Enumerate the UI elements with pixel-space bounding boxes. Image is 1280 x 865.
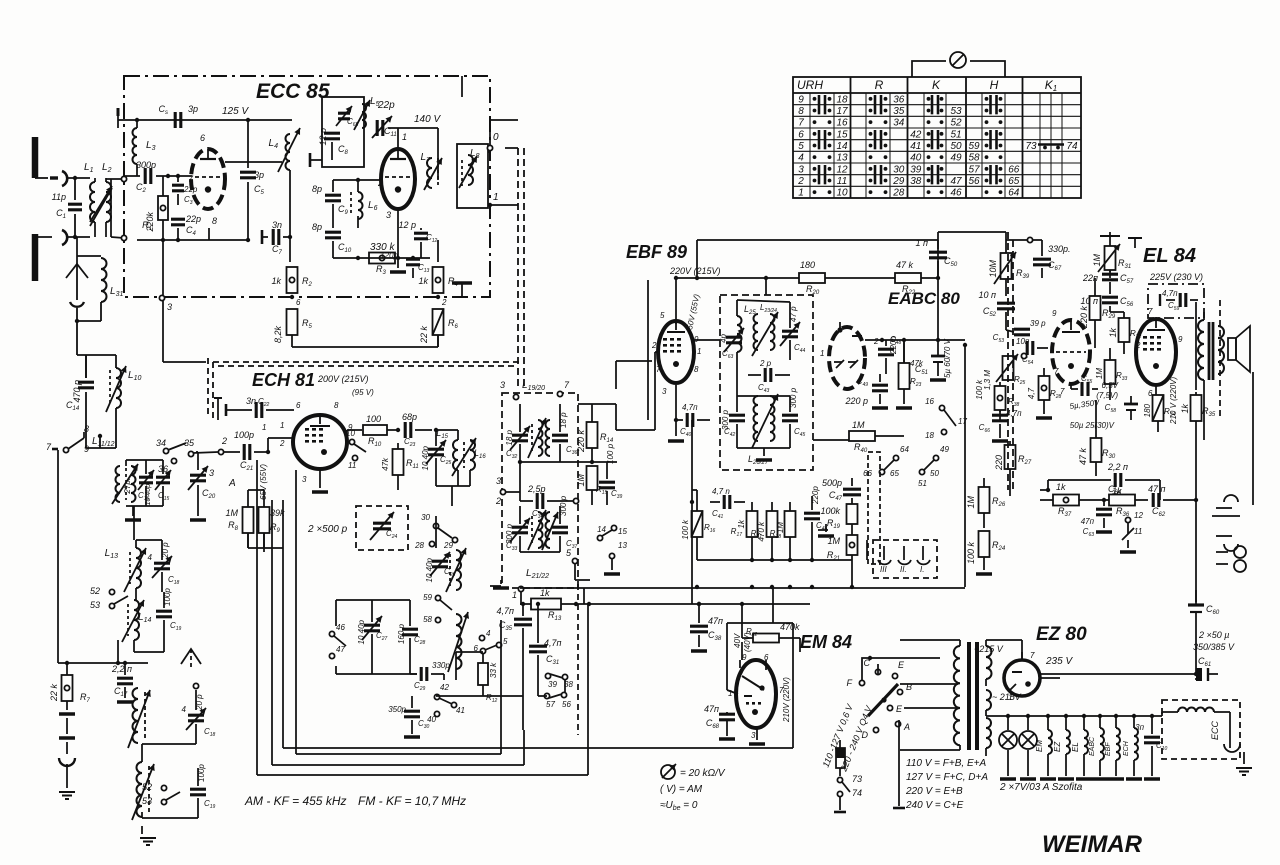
- svg-text:47п: 47п: [704, 704, 719, 714]
- svg-text:(40V): (40V): [743, 632, 752, 652]
- svg-text:(95 V): (95 V): [352, 388, 374, 397]
- wire R8R9 top: [248, 489, 264, 491]
- svg-text:4,7 n: 4,7 n: [712, 487, 730, 496]
- resistor R39 10M pot: [988, 240, 1030, 296]
- ground pickup: [818, 524, 834, 536]
- svg-text:53: 53: [142, 796, 152, 806]
- switch 57-56: [538, 672, 571, 709]
- svg-text:EBF 89: EBF 89: [626, 242, 687, 262]
- svg-text:14: 14: [597, 525, 606, 534]
- dashed box ECC heater: [1162, 700, 1240, 759]
- svg-text:4: 4: [486, 629, 491, 638]
- switch 14-15: [597, 525, 627, 541]
- svg-text:225V (230 V): 225V (230 V): [1149, 272, 1203, 282]
- label 235V: [1045, 656, 1073, 667]
- resistor R6 22k: [419, 309, 459, 347]
- wire grid node: [166, 174, 192, 178]
- svg-text:120p: 120p: [380, 251, 398, 260]
- resistor R19 100k: [820, 504, 857, 535]
- wire EBF top: [674, 240, 938, 324]
- svg-text:47п: 47п: [708, 616, 723, 626]
- wire C14 L10 loop: [77, 355, 116, 448]
- wire right edge: [1252, 372, 1254, 505]
- label WEIMAR: [1042, 831, 1143, 858]
- wire y258: [333, 256, 430, 260]
- svg-text:470 p: 470 p: [72, 380, 82, 403]
- capacitor C9 8p: [312, 180, 349, 228]
- capacitor C8 12p: [318, 128, 349, 160]
- switch 53b: [142, 792, 180, 806]
- svg-text:1: 1: [493, 192, 499, 203]
- svg-text:9: 9: [84, 444, 89, 454]
- svg-text:58: 58: [423, 615, 432, 624]
- switch 73-74: [834, 774, 862, 812]
- svg-text:1k: 1k: [737, 519, 746, 528]
- svg-text:11: 11: [348, 461, 356, 470]
- svg-text:35: 35: [184, 438, 195, 448]
- dashdot box 225V: [1148, 284, 1204, 318]
- svg-text:100 k: 100 k: [966, 542, 976, 565]
- feedback R36 1k: [1104, 486, 1148, 518]
- svg-text:40V: 40V: [733, 633, 742, 648]
- svg-text:9: 9: [1052, 309, 1057, 318]
- osc coil bottom: [448, 612, 469, 680]
- svg-text:56: 56: [562, 700, 571, 709]
- dashed cable switches: [868, 452, 880, 564]
- capacitor C46 220p: [804, 486, 828, 560]
- svg-text:1: 1: [697, 347, 701, 356]
- svg-text:1M: 1M: [576, 474, 586, 487]
- feedback C62 47n: [1148, 480, 1196, 518]
- heater EABC: [1089, 716, 1108, 779]
- inductor L14: [122, 600, 151, 652]
- label 210V: [1169, 377, 1178, 425]
- svg-text:40: 40: [910, 153, 922, 164]
- pickup contacts: [878, 546, 930, 564]
- wire mixer col: [436, 486, 470, 548]
- capacitor C31 4.7n: [529, 602, 562, 672]
- label 140V: [414, 114, 441, 125]
- capacitor C43 2p: [748, 359, 790, 394]
- capacitor C27 var: [357, 600, 388, 668]
- svg-text:3n: 3n: [272, 220, 282, 230]
- resistor R41 470k: [751, 502, 778, 560]
- resistor R31 1M pot: [1092, 232, 1142, 278]
- svg-text:66: 66: [1008, 164, 1020, 175]
- wire to 2: [193, 436, 227, 478]
- svg-text:220: 220: [994, 455, 1004, 471]
- inductor L3: [133, 120, 156, 176]
- resistor R11 47k: [381, 443, 419, 490]
- IF coil 1a: [528, 418, 546, 458]
- svg-text:2,2 п: 2,2 п: [111, 664, 132, 674]
- switch 39-38: [545, 673, 573, 692]
- wire x965 column: [964, 345, 966, 587]
- capacitor C23 68p: [402, 412, 432, 448]
- svg-text:220 k: 220 k: [576, 430, 586, 454]
- svg-text:235 V: 235 V: [1045, 656, 1073, 667]
- svg-text:2: 2: [441, 298, 447, 307]
- terminal 16: [925, 397, 945, 411]
- svg-text:180: 180: [800, 260, 815, 270]
- svg-text:52: 52: [142, 782, 152, 792]
- svg-text:12: 12: [836, 164, 848, 175]
- tube EZ80: [1004, 651, 1040, 702]
- resistor R42 470k: [740, 602, 800, 652]
- svg-text:2 p: 2 p: [759, 359, 772, 368]
- svg-text:12: 12: [1134, 511, 1143, 520]
- resistor R29 220k: [1079, 278, 1116, 348]
- resistor R22 47k: [880, 260, 940, 296]
- svg-text:2: 2: [495, 496, 501, 506]
- dipole arrow b: [181, 649, 201, 668]
- AM antenna coil 1: [128, 688, 151, 748]
- capacitor C35 4.7n: [497, 602, 532, 730]
- svg-text:160 p: 160 p: [397, 623, 406, 644]
- resistor R34 180: [1143, 385, 1176, 432]
- svg-text:A: A: [903, 722, 910, 732]
- svg-text:15: 15: [618, 527, 627, 536]
- resistor R15 1M: [576, 466, 608, 505]
- svg-text:59: 59: [968, 141, 980, 152]
- AM antenna coil 2: [132, 744, 196, 820]
- resistor R35 1k: [1180, 392, 1216, 440]
- dial lamp bracket: [912, 61, 1005, 77]
- IF coils L23/24: [752, 303, 778, 356]
- svg-text:4: 4: [798, 153, 804, 164]
- svg-text:500p: 500p: [822, 478, 842, 488]
- wire bottom right col: [1195, 590, 1197, 602]
- trimmer box: [322, 97, 364, 167]
- svg-text:65: 65: [890, 469, 899, 478]
- svg-text:10M: 10M: [988, 260, 998, 278]
- terminal 13: [604, 541, 627, 574]
- wire selector down: [893, 720, 905, 808]
- svg-text:73: 73: [1025, 141, 1037, 152]
- svg-text:46: 46: [950, 188, 962, 199]
- svg-text:10: 10: [836, 188, 848, 199]
- svg-text:29: 29: [443, 541, 453, 550]
- svg-text:WEIMAR: WEIMAR: [1042, 831, 1143, 858]
- wire ECH81 cathode: [312, 469, 328, 492]
- ground R7: [59, 714, 75, 799]
- svg-text:2,5p: 2,5p: [527, 484, 546, 494]
- label 40V: [733, 632, 752, 652]
- pin 3 label: [386, 210, 391, 220]
- speaker: [1228, 326, 1250, 372]
- svg-text:1: 1: [262, 423, 266, 432]
- svg-text:50: 50: [930, 469, 939, 478]
- ECC 85 screening box: [124, 76, 490, 297]
- svg-text:8: 8: [212, 216, 217, 226]
- label ECC 85: [256, 80, 330, 103]
- EL84 pins: [1135, 307, 1183, 398]
- plug hook lower: [62, 230, 67, 245]
- svg-text:EM: EM: [1035, 740, 1044, 752]
- svg-text:3n: 3n: [246, 396, 256, 406]
- table frame: [793, 77, 1081, 198]
- svg-text:1: 1: [512, 590, 517, 600]
- wire IF1 bottom: [490, 552, 590, 588]
- svg-text:EZ 80: EZ 80: [1036, 624, 1087, 645]
- label FM-KF: [358, 794, 466, 808]
- svg-text:4: 4: [148, 553, 153, 562]
- svg-text:22п: 22п: [1082, 273, 1098, 283]
- inductor L31: [77, 237, 123, 321]
- svg-text:100p: 100p: [234, 430, 254, 440]
- svg-text:8p: 8p: [312, 222, 322, 232]
- pin 2 label: [377, 178, 383, 188]
- svg-text:220p: 220p: [889, 336, 898, 355]
- svg-text:1: 1: [402, 132, 407, 142]
- resistor R1 220k: [142, 176, 168, 240]
- svg-text:3p: 3p: [188, 104, 198, 114]
- svg-text:220V (215V): 220V (215V): [669, 266, 721, 276]
- svg-text:11: 11: [837, 176, 847, 187]
- svg-text:50: 50: [950, 141, 962, 152]
- resistor R26 1M: [966, 478, 1006, 528]
- resistor R18 1M: [770, 502, 796, 560]
- svg-text:18: 18: [925, 431, 934, 440]
- capacitor C59 4.7n: [1160, 289, 1198, 312]
- inductor L4 variable: [269, 128, 301, 172]
- svg-text:2: 2: [221, 436, 227, 446]
- label L21/22: [512, 548, 578, 600]
- resistor R25 pot: [975, 353, 1027, 399]
- label EL 84: [1143, 245, 1196, 267]
- capacitor C66 4.7n: [979, 409, 1022, 441]
- resistor R10 100: [347, 414, 400, 448]
- svg-text:5µ 60/70 V: 5µ 60/70 V: [943, 338, 952, 378]
- svg-text:15: 15: [836, 129, 848, 140]
- svg-text:R: R: [875, 78, 884, 92]
- svg-text:5: 5: [798, 141, 804, 152]
- svg-text:210 V (220V): 210 V (220V): [1169, 377, 1178, 425]
- wire grid2: [333, 178, 381, 182]
- svg-text:ECC 85: ECC 85: [256, 80, 330, 103]
- svg-text:27p.: 27p.: [123, 478, 132, 495]
- triode V1a ECC85: [191, 149, 225, 209]
- capacitor C40 4.7n: [668, 385, 710, 441]
- svg-text:47: 47: [336, 645, 345, 654]
- capacitor C36 18p: [552, 404, 578, 462]
- antenna terminal lower: [32, 234, 39, 281]
- wire loop5: [263, 548, 265, 552]
- svg-text:127 V = F+C, D+A: 127 V = F+C, D+A: [906, 772, 988, 783]
- resistor R30 47k: [1078, 400, 1116, 476]
- capacitor C6 3p top: [159, 104, 199, 128]
- resistor R12 33k: [478, 652, 498, 704]
- label 50V: [685, 293, 701, 330]
- IF box II: [720, 295, 813, 470]
- resistor R33 1M: [1095, 348, 1128, 400]
- capacitor C44 47p: [780, 302, 806, 360]
- dashed wire x576: [577, 584, 579, 735]
- svg-text:74: 74: [852, 788, 862, 798]
- capacitor C48 220p: [878, 335, 902, 374]
- wire loop2: [272, 500, 524, 765]
- svg-text:H: H: [990, 78, 999, 92]
- svg-text:240 V = C+E: 240 V = C+E: [905, 800, 964, 811]
- svg-text:34: 34: [156, 438, 166, 448]
- svg-text:140 V: 140 V: [414, 114, 441, 125]
- wire 140V bus: [398, 128, 438, 180]
- label 220V: [669, 266, 721, 276]
- svg-text:16: 16: [836, 118, 848, 129]
- svg-text:100 p: 100 p: [606, 443, 615, 464]
- svg-text:58: 58: [968, 153, 980, 164]
- svg-text:3: 3: [386, 210, 391, 220]
- heater bus: [986, 714, 1150, 718]
- label AM-KF: [244, 794, 346, 808]
- label ECH 81: [252, 370, 315, 390]
- svg-text:FM - KF = 10,7 MHz: FM - KF = 10,7 MHz: [358, 794, 466, 808]
- IF coil 2b: [542, 512, 559, 550]
- wire right bus1: [1194, 302, 1198, 590]
- transformer sec mid: [986, 690, 1022, 716]
- capacitor C10 8p: [312, 222, 352, 258]
- svg-text:200V (215V): 200V (215V): [317, 374, 369, 384]
- capacitor C29 330p: [410, 661, 450, 692]
- capacitor C67 330p: [1033, 240, 1071, 278]
- svg-text:100: 100: [366, 414, 381, 424]
- capacitor C37 300p: [552, 495, 578, 552]
- svg-text:3: 3: [209, 468, 214, 478]
- capacitor C20 variable: [188, 452, 216, 520]
- wire to pin1: [388, 128, 407, 148]
- svg-text:6: 6: [200, 133, 205, 143]
- svg-text:1k: 1k: [1108, 328, 1118, 338]
- svg-text:49: 49: [940, 445, 949, 454]
- resistor R8 1M: [225, 490, 253, 548]
- svg-text:36: 36: [893, 94, 905, 105]
- svg-text:22p: 22p: [377, 100, 395, 111]
- svg-text:EZ: EZ: [1053, 741, 1062, 752]
- tube EM84: [736, 660, 776, 728]
- svg-text:22p: 22p: [185, 214, 201, 224]
- svg-text:39: 39: [910, 164, 922, 175]
- heater ECH: [1123, 716, 1142, 779]
- svg-text:28: 28: [892, 188, 905, 199]
- svg-text:68p: 68p: [402, 412, 417, 422]
- switch 59-58: [423, 593, 452, 624]
- svg-text:220 V = E+B: 220 V = E+B: [905, 786, 963, 797]
- capacitor C57 22n: [1082, 270, 1134, 294]
- resistor R7 22k: [49, 663, 91, 710]
- svg-text:1M: 1M: [852, 420, 865, 430]
- svg-text:5: 5: [660, 311, 665, 320]
- svg-text:17: 17: [958, 417, 967, 426]
- svg-text:6,5V: 6,5V: [1102, 381, 1119, 390]
- svg-text:20 p: 20 p: [195, 694, 204, 711]
- table numbers: [797, 94, 1078, 198]
- label 110-127V: [821, 702, 856, 769]
- svg-text:4,7п: 4,7п: [682, 403, 698, 412]
- tube EBF89: [658, 321, 694, 383]
- svg-text:33 k: 33 k: [489, 662, 498, 678]
- svg-text:1: 1: [820, 349, 824, 358]
- capacitor C52 10n: [979, 290, 1015, 330]
- svg-text:9: 9: [798, 94, 804, 105]
- svg-text:29: 29: [892, 176, 905, 187]
- svg-text:= 20 kΩ/V: = 20 kΩ/V: [680, 768, 726, 779]
- svg-text:3: 3: [662, 387, 667, 396]
- svg-text:2: 2: [873, 337, 879, 346]
- capacitor C17 2.2n: [111, 663, 133, 698]
- wire speaker out: [1203, 392, 1205, 440]
- selector terminal C: [864, 658, 881, 675]
- label 2x500p: [307, 524, 348, 535]
- transformer primary: [900, 640, 960, 750]
- svg-text:EABC 80: EABC 80: [888, 289, 960, 308]
- wire loop4: [248, 533, 283, 548]
- IF box L19/20: [502, 393, 578, 588]
- IF coil 1b: [546, 420, 551, 456]
- svg-text:100 k: 100 k: [681, 519, 690, 540]
- capacitor C45 300p: [782, 387, 806, 448]
- terminal 1: [488, 192, 505, 207]
- svg-text:220 p: 220 p: [844, 396, 868, 406]
- svg-text:1k: 1k: [418, 276, 428, 286]
- svg-text:47 k: 47 k: [1078, 448, 1088, 466]
- label L11/12: [92, 436, 115, 448]
- svg-text:E: E: [896, 704, 903, 714]
- svg-text:4: 4: [182, 705, 187, 714]
- svg-text:3: 3: [798, 164, 804, 175]
- capacitor C18 trimmer a: [148, 540, 180, 592]
- svg-text:6: 6: [798, 129, 804, 140]
- wire R5 bottom: [292, 335, 438, 347]
- svg-text:4,7п: 4,7п: [1162, 289, 1178, 298]
- wire 465 to EBF: [592, 352, 658, 430]
- wire y587 bus: [520, 585, 965, 589]
- svg-text:1M: 1M: [966, 496, 976, 509]
- svg-text:14: 14: [836, 141, 848, 152]
- svg-text:47: 47: [950, 176, 962, 187]
- plug hook upper: [62, 171, 67, 186]
- resistor R21 1M: [827, 535, 858, 587]
- jack lower: [1216, 536, 1246, 572]
- capacitor C5 3p: [209, 120, 265, 242]
- svg-text:10 п: 10 п: [979, 290, 997, 300]
- resistor R32 1k: [1108, 312, 1142, 354]
- svg-text:6: 6: [296, 298, 301, 307]
- label 200V: [317, 374, 369, 384]
- meter note line3: [660, 800, 698, 812]
- capacitor C15 variable: [145, 470, 171, 505]
- svg-text:4,7п: 4,7п: [544, 638, 562, 648]
- svg-text:III: III: [880, 565, 887, 574]
- pin 7 label: [188, 174, 194, 184]
- capacitor C18 trimmer b: [182, 694, 216, 744]
- svg-text:210V (220V): 210V (220V): [782, 677, 791, 723]
- capacitor C16 trimmer: [123, 470, 154, 502]
- svg-text:36: 36: [158, 464, 168, 474]
- switch 52a: [90, 586, 115, 596]
- switch 42-41-40: [427, 683, 465, 724]
- folded dipole arrow: [66, 264, 88, 300]
- table switch contacts: [813, 95, 1003, 194]
- svg-text:51: 51: [950, 129, 961, 140]
- ground am: [140, 826, 156, 845]
- label 220-240V: [838, 704, 874, 774]
- capacitor C56 10n: [1081, 296, 1134, 312]
- svg-text:II.: II.: [900, 565, 907, 574]
- heater EZ: [1053, 716, 1074, 779]
- svg-text:12 p: 12 p: [318, 128, 328, 146]
- svg-text:10п: 10п: [1016, 337, 1030, 346]
- svg-text:AM - KF = 455 kHz: AM - KF = 455 kHz: [244, 794, 346, 808]
